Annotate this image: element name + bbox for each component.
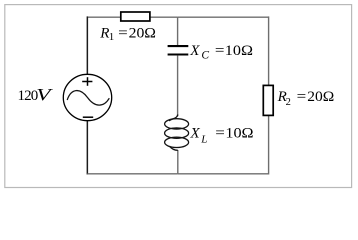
wire: middle branch, capacitor XC to inductor XL [177,56,179,117]
wire: top, R1 to node A [150,16,178,18]
wire: right vertical upper [268,16,270,85]
wire: top, source to R1 [87,16,120,18]
svg-text:=: = [215,126,225,142]
resistor R1 [121,12,150,21]
inductor XL coil loop 2 [165,128,189,138]
AC source V1 plus terminal [82,77,92,86]
svg-text:10Ω: 10Ω [225,43,253,59]
label R2 = 20ohm [277,89,335,108]
svg-text:10Ω: 10Ω [225,126,253,142]
label XL = 10ohm [190,126,254,146]
svg-text:X: X [189,43,200,59]
svg-text:120: 120 [18,88,38,104]
label XC = 10ohm [189,43,253,62]
AC source V1 sine wave [67,91,109,106]
svg-text:=: = [297,89,307,105]
label R1 = 20ohm [99,25,156,43]
svg-text:=: = [215,43,225,59]
inductor XL exit tail [170,146,178,150]
svg-text:20Ω: 20Ω [129,25,156,41]
capacitor XC top plate [168,45,189,47]
svg-text:2: 2 [286,97,291,108]
AC source V1 body [63,74,111,120]
inductor XL coil loop 1 [165,119,189,129]
label 120V [18,86,54,104]
svg-text:1: 1 [109,31,115,43]
svg-text:L: L [200,133,207,145]
resistor R2 [263,85,273,115]
wire: left vertical upper [86,16,88,74]
capacitor XC bottom plate [168,53,189,55]
wire: right vertical lower [268,115,270,174]
svg-text:=: = [118,25,128,41]
AC source V1 minus terminal [83,116,93,118]
svg-text:20Ω: 20Ω [307,89,334,105]
inductor XL entry tail [169,115,178,121]
svg-text:C: C [201,50,209,62]
wire: top, node A to right branch [178,16,269,18]
wire: middle branch, node A to capacitor XC [177,17,179,45]
wire: left vertical lower [86,121,88,175]
wire: bottom, node B to right branch [178,173,269,175]
inductor XL coil loop 3 [165,137,189,147]
wire: bottom, source to node B [87,173,177,175]
wire: middle branch, inductor XL to node B [177,150,179,174]
svg-text:X: X [190,126,201,142]
